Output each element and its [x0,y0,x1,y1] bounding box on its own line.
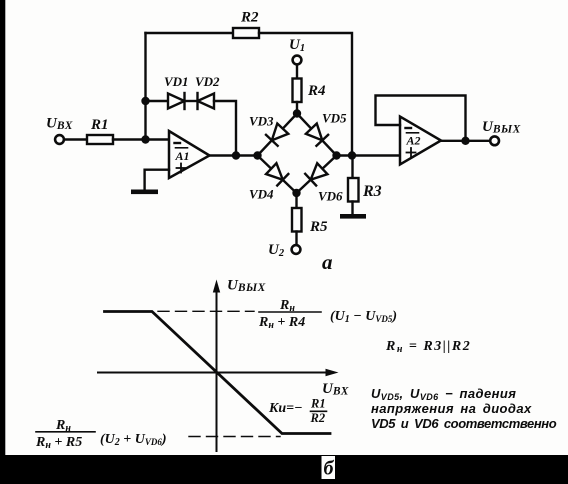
svg-text:UВЫХ: UВЫХ [482,119,521,136]
ground at R3 [340,214,366,219]
formula positive level [258,298,397,331]
svg-text:R2: R2 [310,411,326,425]
wire between VD1 and VD2 [185,100,198,102]
svg-text:Rн + R4: Rн + R4 [258,315,305,331]
node A1 output [232,151,240,159]
diode VD5 [305,123,328,146]
wire bridge edge top-right [297,114,337,156]
wire R5 to U2 [295,232,297,245]
node bridge left [253,151,261,159]
formula negative level [35,418,167,451]
wire junction up to feedback [144,33,146,140]
op-amp A1 [169,131,210,178]
svg-text:VD3: VD3 [249,114,274,129]
svg-text:R2: R2 [240,10,259,26]
wire R4 to bridge top [296,102,298,114]
x axis [98,369,339,376]
wire bridge right to A2 [337,154,401,156]
svg-text:U2: U2 [268,242,285,259]
output terminal Uвых [490,136,499,145]
node A2 output [461,137,469,145]
formula Ku [268,397,327,426]
note about diode voltage drops [371,386,557,431]
svg-text:Rн = R3||R2: Rн = R3||R2 [385,339,471,355]
resistor R1 [87,135,113,144]
scan border bottom [0,455,568,484]
svg-text:(U2 + UVD6): (U2 + UVD6) [100,432,167,448]
svg-text:A2: A2 [406,134,421,148]
wire A1 output to bridge [210,154,258,156]
wire A2 feedback loop [376,96,466,141]
svg-text:а: а [322,250,333,274]
svg-text:Ku=−: Ku=− [268,401,303,416]
dashed level negative [189,436,280,438]
svg-text:VD1: VD1 [164,74,189,89]
wire down to R3 [351,156,353,179]
node inverting input junction [141,135,149,143]
wire to diode VD1 [146,100,169,102]
wire A2 output [441,140,489,142]
y axis [213,280,220,452]
wire bridge edge bottom-right [297,156,337,194]
wire feedback top right segment [259,33,352,156]
svg-text:б: б [324,458,335,480]
svg-text:VD6: VD6 [318,189,343,204]
dashed level positive [158,310,254,312]
svg-text:UВЫХ: UВЫХ [227,278,266,295]
diode VD2 [198,93,215,109]
terminal U1 [293,56,302,65]
svg-text:UВХ: UВХ [322,381,349,398]
svg-text:R1: R1 [90,117,109,133]
svg-text:R1: R1 [310,397,326,411]
svg-text:UVD5, UVD6 − падения: UVD5, UVD6 − падения [371,386,516,402]
transfer characteristic curve [105,312,331,434]
wire A1 noninverting input [145,170,169,190]
node VD1 branch junction [141,97,149,105]
svg-text:Rн + R5: Rн + R5 [35,435,82,451]
wire bridge edge top-left [258,114,298,156]
wire feedback top left segment [146,32,234,34]
resistor R4 [293,79,302,103]
wire U1 to R4 [296,65,298,78]
formula Rн = R3||R2 [385,339,471,355]
node bridge top [293,109,301,117]
svg-text:R4: R4 [307,83,326,99]
ground at A1 input [131,190,158,195]
svg-text:A1: A1 [175,149,190,163]
svg-text:(U1 − UVD5): (U1 − UVD5) [330,309,397,325]
wire R1 to inverting node [113,138,169,140]
svg-text:VD5: VD5 [322,111,347,126]
wire R3 to ground [351,202,353,215]
diode VD3 [266,123,289,146]
resistor R3 [348,178,359,202]
svg-text:VD4: VD4 [249,187,274,202]
input terminal Uвх [55,135,64,144]
svg-text:VD2: VD2 [195,74,220,89]
diode VD4 [266,163,289,186]
svg-text:U1: U1 [289,37,305,54]
node bridge bottom [292,189,300,197]
scan border left [0,0,5,456]
wire VD2 to A1 output [214,101,236,156]
svg-text:R3: R3 [362,183,382,200]
node bridge right [332,151,340,159]
node R3 junction [348,151,356,159]
diode VD1 [168,93,185,109]
resistor R2 [233,28,259,38]
wire bridge edge bottom-left [258,156,297,194]
resistor R5 [292,208,302,232]
svg-text:напряжения на диодах: напряжения на диодах [371,401,532,416]
wire bridge bottom to R5 [295,193,297,208]
label б [322,456,336,480]
op-amp A2 [400,117,441,165]
svg-text:R5: R5 [309,219,328,235]
terminal U2 [292,245,301,254]
svg-text:UВХ: UВХ [46,116,73,133]
wire input to R1 [65,138,87,140]
diode VD6 [305,163,328,186]
svg-text:VD5 и VD6 соответственно: VD5 и VD6 соответственно [371,416,557,431]
